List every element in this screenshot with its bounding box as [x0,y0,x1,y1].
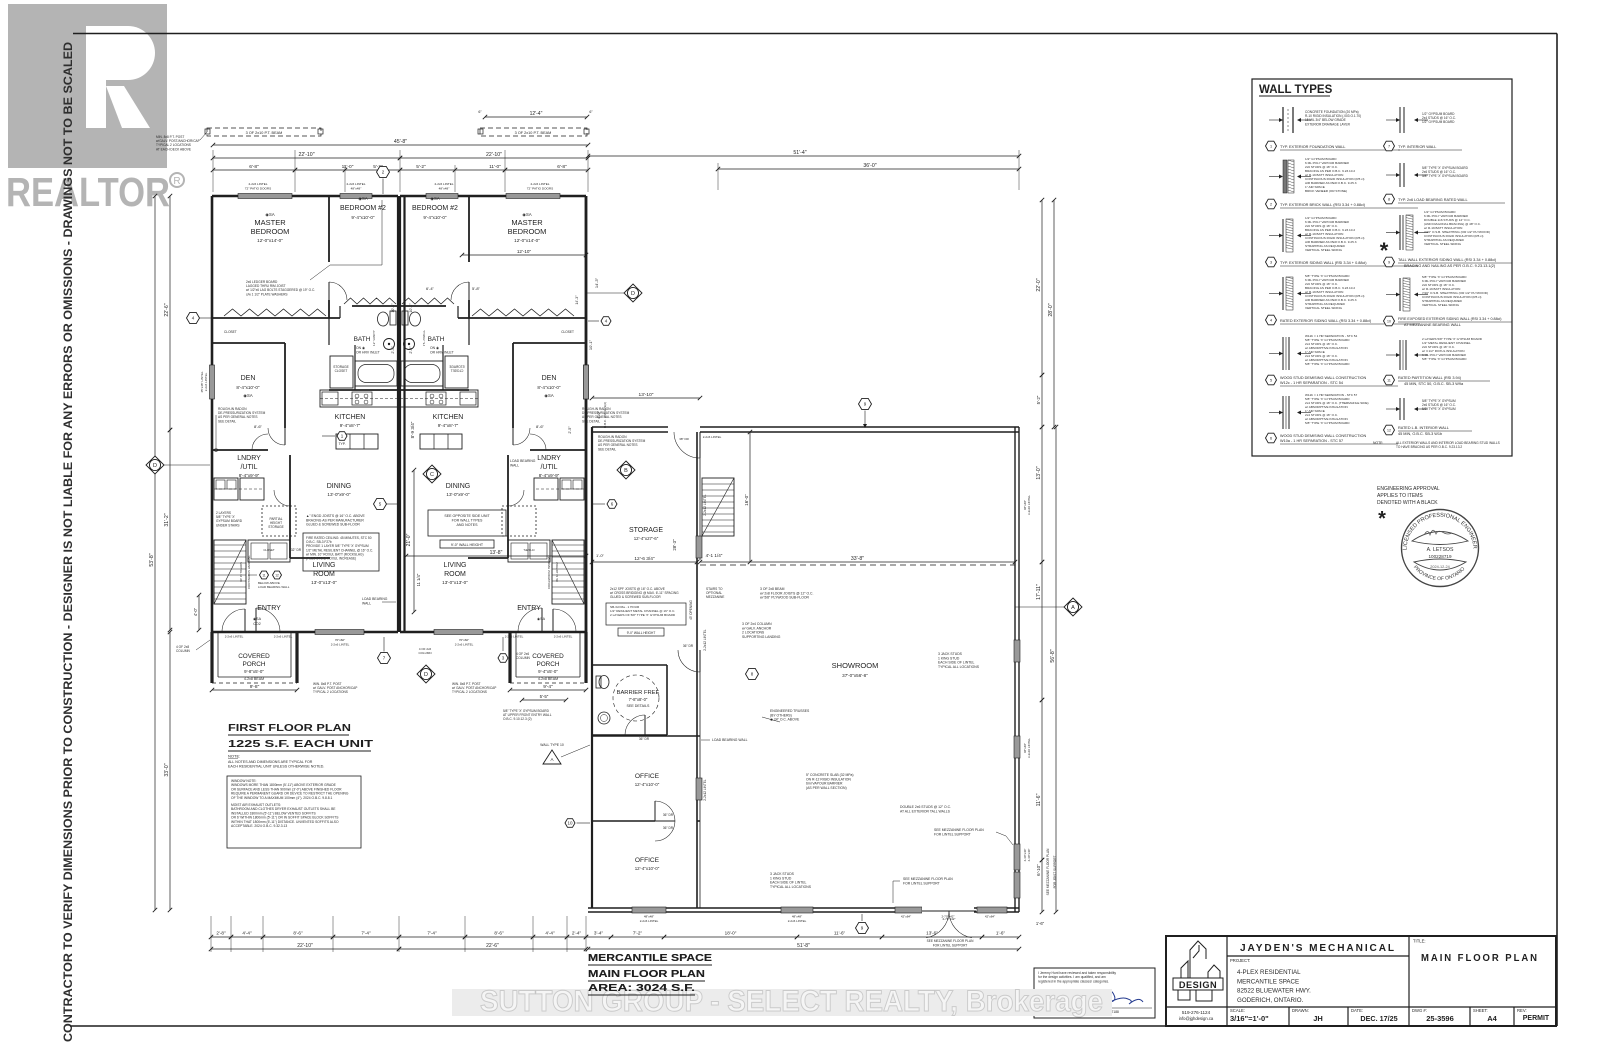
svg-text:DEN: DEN [241,375,256,382]
front window living [315,630,364,635]
svg-text:KITCHEN: KITCHEN [433,414,464,421]
wall bath top [352,305,398,307]
door master bedroom [328,282,330,300]
window bedroom2 top [340,194,372,199]
svg-text:2-2x6 LINTEL: 2-2x6 LINTEL [204,372,208,391]
svg-text:STORAGE: STORAGE [629,527,663,534]
svg-text:NOTE:: NOTE: [1373,441,1383,445]
svg-text:4'-1 1/4": 4'-1 1/4" [706,553,723,558]
dashed PT beam box left [207,128,321,136]
svg-text:48"x48": 48"x48" [439,187,450,191]
svg-text:4-PLEX RESIDENTIAL: 4-PLEX RESIDENTIAL [1237,969,1301,976]
wall den right [284,343,286,428]
svg-text:OF THE WINDOW TO A MAXIMUM 100: OF THE WINDOW TO A MAXIMUM 100mm (4"). 2… [231,796,333,800]
svg-text:13'-0": 13'-0" [1036,466,1042,479]
svg-text:100228719: 100228719 [1429,554,1452,559]
svg-text:AT ALL EXTERIOR TALL WALLS: AT ALL EXTERIOR TALL WALLS [900,809,951,813]
svg-text:TYP. EXTERIOR FOUNDATION WALL: TYP. EXTERIOR FOUNDATION WALL [1280,145,1346,149]
svg-text:D: D [631,291,635,297]
svg-text:9'-4"x8'-7": 9'-4"x8'-7" [438,423,459,428]
svg-text:3-2x10 LINTEL: 3-2x10 LINTEL [1027,738,1031,759]
svg-text:2-2x6 LINTEL: 2-2x6 LINTEL [505,635,524,639]
svg-text:ROOM: ROOM [313,571,335,578]
dim 28'-0 right upper [1053,200,1055,427]
svg-text:6: 6 [1270,437,1272,441]
svg-text:42"x84": 42"x84" [985,915,995,919]
mercantile outer wall top [592,426,1019,428]
svg-text:6'-10": 6'-10" [1036,864,1041,876]
svg-text:7'-4": 7'-4" [427,931,437,936]
svg-text:SHOWROOM: SHOWROOM [832,661,879,670]
legend entry 8 load bearing rated wall [1399,163,1401,187]
wall lndry right [289,455,291,558]
svg-text:◉SA: ◉SA [358,196,367,201]
dim 33'-0 left lower [169,632,171,910]
svg-text:CLOSET: CLOSET [224,330,237,334]
svg-text:2-2x6 LINTEL: 2-2x6 LINTEL [346,182,365,186]
svg-text:6'-8": 6'-8" [249,164,259,170]
svg-text:2-2x6 LINTEL: 2-2x6 LINTEL [331,643,350,647]
svg-text:FIRST FLOOR PLAN: FIRST FLOOR PLAN [228,722,351,734]
svg-text:25-3596: 25-3596 [1426,1014,1454,1023]
hex 5 center [374,498,387,509]
svg-text:WALL TYPE 10: WALL TYPE 10 [540,743,564,747]
svg-text:SCALE:: SCALE: [1230,1008,1245,1013]
svg-text:/UTIL: /UTIL [240,464,257,471]
svg-text:22'-10": 22'-10" [486,152,502,158]
svg-text:LOAD BEARING WALL: LOAD BEARING WALL [712,738,748,742]
svg-text:D: D [424,672,428,678]
svg-text:22'-6": 22'-6" [164,303,170,316]
svg-text:DEN: DEN [542,375,557,382]
svg-text:4'-4": 4'-4" [545,931,555,936]
svg-text:FOR LINTEL SUPPORT: FOR LINTEL SUPPORT [903,881,940,885]
mercantile bottom windows and doors [632,907,666,913]
svg-text:DENOTED WITH A BLACK: DENOTED WITH A BLACK [1377,500,1438,506]
svg-text:BATH: BATH [428,336,445,343]
svg-text:2-2x6 LINTEL: 2-2x6 LINTEL [554,635,573,639]
design logo [1178,941,1220,1001]
diamond C center [423,465,441,483]
svg-text:TYP. 2x6 LOAD BEARING RATED WA: TYP. 2x6 LOAD BEARING RATED WALL [1398,198,1468,202]
svg-text:2-2x12 LINTEL: 2-2x12 LINTEL [703,494,707,516]
svg-text:DWG #:: DWG #: [1412,1008,1427,1013]
wall types legend box [1252,79,1512,456]
svg-text:O.B.C. 9.10.12.3 (2): O.B.C. 9.10.12.3 (2) [503,717,532,721]
dim 22'-10 pair [213,157,400,159]
svg-text:EACH RESIDENTIAL UNIT UNLESS O: EACH RESIDENTIAL UNIT UNLESS OTHERWISE N… [228,765,324,769]
svg-text:13'-10": 13'-10" [639,392,654,398]
svg-text:9'-8": 9'-8" [250,684,260,690]
svg-text:5: 5 [1270,379,1272,383]
party wall [397,196,399,632]
svg-text:51'-8": 51'-8" [797,943,810,949]
svg-text:2024-12-24: 2024-12-24 [1430,565,1449,569]
svg-text:RATED PARTITION WALL (RSI 3.94: RATED PARTITION WALL (RSI 3.94) [1398,376,1462,380]
svg-text:SEE OPPOSITE SIDE UNIT: SEE OPPOSITE SIDE UNIT [444,514,490,518]
wall below barrier free [592,735,700,737]
diamond B mercantile [617,461,635,479]
svg-text:WOOD STUD DEMISING WALL CONSTR: WOOD STUD DEMISING WALL CONSTRUCTION [1280,434,1366,438]
svg-text:AT MEZZANINE BEARING WALL: AT MEZZANINE BEARING WALL [1404,323,1461,327]
svg-text:TYPICAL 2 LOCATIONS: TYPICAL 2 LOCATIONS [313,690,348,694]
svg-text:BEDROOM #2: BEDROOM #2 [412,205,458,212]
svg-text:2-70"x42": 2-70"x42" [942,915,955,919]
svg-text:JH: JH [1313,1014,1323,1023]
svg-text:TYP. INTERIOR WALL: TYP. INTERIOR WALL [1398,145,1436,149]
svg-text:5/8" TYPE 'X' GYPSUM: 5/8" TYPE 'X' GYPSUM [1422,407,1456,411]
legend entry 10 fire exposed exterior siding [1399,278,1401,311]
dim right showroom 17'-11 [1041,562,1043,700]
dim 17'-10 u2 [462,254,586,256]
extension line top right [1018,150,1020,190]
svg-text:13'-0"x13'-0": 13'-0"x13'-0" [442,580,468,585]
diamond A right [1064,598,1082,616]
svg-text:TYP.: TYP. [338,442,345,446]
extension lines top [212,150,214,192]
doors between offices [654,801,656,821]
svg-text:11: 11 [262,574,266,578]
office window lintels interior wall [696,536,702,558]
svg-text:DINING: DINING [446,483,471,490]
svg-text:2-2x12 LINTEL: 2-2x12 LINTEL [703,629,707,651]
dim 12'-6 3/4 storage [592,561,697,563]
dim 53'-8 far left [154,196,156,910]
title block dividers [1226,936,1228,1026]
closet bifold doors bedroom2 [344,298,396,304]
closet bifold doors master [224,309,326,316]
svg-text:LIVING: LIVING [444,562,467,569]
wall master/bedroom2 divider [328,196,330,262]
svg-text:BRICK VENEER (OR STONE): BRICK VENEER (OR STONE) [1305,189,1347,193]
svg-text:KITCHEN: KITCHEN [335,414,366,421]
svg-text:72" PATIO DOORS: 72" PATIO DOORS [527,187,553,191]
svg-text:CONTRACTOR TO VERIFY DIMENSION: CONTRACTOR TO VERIFY DIMENSIONS PRIOR TO… [61,42,75,1042]
svg-text:9'-4"x10'-0": 9'-4"x10'-0" [423,215,447,220]
hex 10 below [565,819,575,828]
svg-text:5/8" TYPE 'X' GYPSUM BOARD: 5/8" TYPE 'X' GYPSUM BOARD [1422,357,1467,361]
svg-text:21'-0": 21'-0" [406,533,412,546]
svg-text:◉ 24" O.C. ABOVE: ◉ 24" O.C. ABOVE [770,718,800,722]
svg-text:FOR WALL TYPES: FOR WALL TYPES [452,519,483,523]
dim 12'-4 beam right [485,116,587,118]
svg-text:9'-4"x10'-0": 9'-4"x10'-0" [351,215,375,220]
svg-text:WALL: WALL [362,601,371,605]
svg-text:2-2x6 LINTEL: 2-2x6 LINTEL [434,182,453,186]
bath sink [384,339,395,350]
svg-text:4: 4 [1270,319,1272,323]
svg-text:4'-0": 4'-0" [596,410,601,419]
kitchen counter [320,390,398,407]
svg-text:◉SA: ◉SA [544,393,553,398]
svg-text:4-40"x40": 4-40"x40" [1027,849,1031,862]
svg-text:CLOSET: CLOSET [561,330,574,334]
dim bottom segments mercantile [586,936,611,938]
barrier free sink [598,712,610,724]
svg-text:◉SA: ◉SA [522,212,531,217]
entry closet door [244,609,246,632]
svg-text:TYPICAL ALL LOCATIONS: TYPICAL ALL LOCATIONS [938,665,980,669]
svg-text:◉SA: ◉SA [243,393,252,398]
svg-text:RATED EXTERIOR SIDING WALL (RS: RATED EXTERIOR SIDING WALL (RSI 3.34 + 0… [1280,319,1372,323]
svg-text:MERCANTILE SPACE: MERCANTILE SPACE [1237,978,1299,985]
svg-text:AREA: 3024 S.F.: AREA: 3024 S.F. [588,983,695,994]
svg-text:/UTIL: /UTIL [540,464,557,471]
svg-text:REALTOR: REALTOR [6,169,170,215]
hex markers u2 interior [601,317,611,326]
bath toilet [378,312,389,326]
svg-text:registered in the appropriate: registered in the appropriate classes/ c… [1038,979,1109,983]
mercantile interior wall storage/showroom [696,432,698,560]
residential unit 1 walls [210,194,399,635]
svg-text:◉SA: ◉SA [430,196,439,201]
svg-text:2'-8": 2'-8" [216,931,226,936]
svg-text:LNDRY: LNDRY [237,455,261,462]
stair rail diagonal [214,540,246,604]
partial height storage [262,506,296,536]
svg-text:11 1/4": 11 1/4" [416,573,421,586]
svg-text:3: 3 [1270,261,1272,265]
dim 45'-8 residential [213,144,588,146]
svg-text:13'-6": 13'-6" [926,931,938,936]
svg-text:10: 10 [567,821,573,826]
mezzanine dashed line [700,564,1015,566]
svg-text:ENTRY: ENTRY [257,605,281,612]
svg-text:10'-1": 10'-1" [588,339,593,350]
svg-text:3/16"=1'-0": 3/16"=1'-0" [1230,1014,1269,1023]
door lndry [289,490,291,506]
mercantile front double door [922,905,974,914]
svg-text:TO HAVE BRACING AS PER O.B.C.: TO HAVE BRACING AS PER O.B.C. 9.23.13.2 [1396,445,1462,449]
svg-text:MASTER: MASTER [511,218,543,227]
residential right wall lower [585,196,588,632]
mercantile right wall [1014,427,1016,912]
svg-text:12'-4": 12'-4" [530,111,543,117]
dim 5'-5 entry [522,699,566,701]
svg-text:22'-6": 22'-6" [486,943,499,949]
window right wall den u2 [584,365,589,399]
svg-text:TYPICAL 2 LOCATIONS: TYPICAL 2 LOCATIONS [452,690,487,694]
svg-text:GLUED & SCREWED SUB-FLOOR: GLUED & SCREWED SUB-FLOOR [306,523,360,527]
door office1 top [699,650,701,672]
svg-text:A4: A4 [1487,1014,1497,1023]
covered porch walls [210,632,213,683]
svg-text:TYP. EXTERIOR BRICK WALL (RSI: TYP. EXTERIOR BRICK WALL (RSI 3.34 + 0.8… [1280,203,1366,207]
svg-text:R: R [173,176,180,187]
svg-text:SEE DETAIL: SEE DETAIL [218,419,236,423]
svg-text:10'-1": 10'-1" [391,303,395,313]
svg-text:2-2x12 LINTEL: 2-2x12 LINTEL [703,779,707,801]
svg-text:FOR LINTEL SUPPORT: FOR LINTEL SUPPORT [934,832,971,836]
svg-text:STORAGE: STORAGE [268,525,284,529]
svg-text:28'-0": 28'-0" [1048,303,1054,316]
svg-text:8'-6": 8'-6" [536,424,545,429]
covered porch walls [508,632,511,683]
svg-text:22'-10": 22'-10" [298,152,314,158]
svg-text:5'-2": 5'-2" [416,164,426,170]
svg-text:36" DR: 36" DR [663,813,674,817]
wall unit1 top exterior [212,195,398,198]
svg-text:NOTE:: NOTE: [228,754,240,759]
svg-text:O.B.C. 9.10.12.3(2): O.B.C. 9.10.12.3(2) [603,402,607,428]
svg-text:DESIGN: DESIGN [1179,980,1217,990]
svg-text:SEE DETAILS: SEE DETAILS [627,704,651,708]
svg-text:12'-6 3/4": 12'-6 3/4" [634,556,655,562]
svg-text:BEDROOM: BEDROOM [508,227,547,236]
lndry sink cab [240,478,264,500]
svg-text:8'-4"x9'-9": 8'-4"x9'-9" [239,473,260,478]
svg-text:WALL: WALL [510,463,519,467]
legend entry 1 exterior foundation wall [1282,107,1284,133]
svg-text:48"x48": 48"x48" [792,915,802,919]
svg-text:8: 8 [1388,198,1390,202]
svg-text:OFFICE: OFFICE [635,773,660,780]
svg-text:9'-0" WALL HEIGHT: 9'-0" WALL HEIGHT [627,631,656,635]
svg-text:◉SA: ◉SA [253,617,262,621]
barrier free room walls [592,664,667,666]
svg-text:DINING: DINING [327,483,352,490]
svg-text:3 OF 2x10 P.T. BEAM: 3 OF 2x10 P.T. BEAM [515,131,552,135]
kitchen fridge [322,392,338,405]
svg-text:3'-4": 3'-4" [594,931,604,936]
hex marker left wall [187,312,200,323]
svg-text:LIVING: LIVING [313,562,336,569]
svg-text:A: A [550,757,553,762]
dim 4'-0 left small [198,595,200,630]
svg-text:2-2x6 LINTEL: 2-2x6 LINTEL [703,435,722,439]
svg-text:4-2x8 BEAM: 4-2x8 BEAM [538,677,558,681]
svg-text:UP 15 TREADS: UP 15 TREADS [239,562,243,582]
svg-text:9'-0" WALL HEIGHT: 9'-0" WALL HEIGHT [451,543,484,547]
window note box [227,776,361,848]
svg-text:2-2x6 LINTEL: 2-2x6 LINTEL [455,643,474,647]
legend entry 12 rated LB interior wall [1399,398,1401,420]
svg-text:4'-4": 4'-4" [242,931,252,936]
svg-text:TYPICAL ALL LOCATIONS: TYPICAL ALL LOCATIONS [770,885,812,889]
svg-text:13'-0"x9'-0": 13'-0"x9'-0" [327,492,351,497]
svg-text:45 MIN, STC 50, O.B.C. SB-3 W9: 45 MIN, STC 50, O.B.C. SB-3 W9a [1404,382,1464,386]
svg-text:2'-5": 2'-5" [568,426,572,434]
wall between offices [592,820,655,822]
svg-text:14'-3": 14'-3" [575,295,579,305]
svg-text:22'-0": 22'-0" [1036,278,1042,291]
dim 36'-0 top [718,168,1019,170]
svg-text:DEC. 17/25: DEC. 17/25 [1360,1014,1397,1023]
dim 5'-2 right upper [1041,375,1043,427]
svg-text:COLUMN: COLUMN [516,656,531,660]
mercantile bottom wall [588,907,1019,909]
svg-text:12'-4"x10'-0": 12'-4"x10'-0" [635,782,660,787]
page border bottom [70,1025,1557,1027]
svg-text:1'-0": 1'-0" [596,553,605,558]
hex marker 9 bottom [856,922,869,933]
svg-text:11'-6": 11'-6" [1036,793,1042,806]
legend entry 3 exterior siding wall [1282,219,1284,252]
legend entry 6 wood stud demising wall 2 [1282,396,1284,429]
svg-text:13'-0"x9'-0": 13'-0"x9'-0" [446,492,470,497]
svg-text:7'-4": 7'-4" [361,931,371,936]
svg-text:6'-8": 6'-8" [557,164,567,170]
legend entry 9 tall wall exterior siding [1399,215,1401,250]
wall bath/kitchen [329,389,398,391]
dims between res and merc [592,397,700,399]
svg-text:COLUMN: COLUMN [176,649,191,653]
svg-text:5/8" TYPE 'X' GYPSUM BOARD: 5/8" TYPE 'X' GYPSUM BOARD [1305,421,1350,425]
svg-text:13'-0"x13'-0": 13'-0"x13'-0" [311,580,337,585]
svg-text:12: 12 [275,574,279,578]
dim right showroom 13'-0 [1041,427,1043,562]
window patio door top [238,194,292,199]
svg-text:53'-8": 53'-8" [149,553,155,566]
svg-text:◉SA: ◉SA [537,617,546,621]
svg-text:BRACING AND NAILING AS PER O.B: BRACING AND NAILING AS PER O.B.C. 9.23.1… [1404,264,1496,268]
svg-text:5/8" TYPE 'X' GYPSUM BOARD: 5/8" TYPE 'X' GYPSUM BOARD [1422,174,1469,178]
svg-text:45 MIN, O.B.C. SB-3 W1b: 45 MIN, O.B.C. SB-3 W1b [1398,432,1442,436]
svg-text:W10a - 1 HR SEPARATION - STC 5: W10a - 1 HR SEPARATION - STC 57 [1280,439,1343,443]
svg-text:1: 1 [1270,145,1272,149]
svg-text:2: 2 [1270,203,1272,207]
svg-text:22'-10": 22'-10" [297,943,313,949]
svg-text:VERTICAL STEEL SIDING: VERTICAL STEEL SIDING [1305,306,1343,310]
declaration signature [1095,991,1143,1004]
mercantile right wall lintels [1014,640,1020,662]
svg-text:JAYDEN'S MECHANICAL: JAYDEN'S MECHANICAL [1240,942,1396,954]
svg-text:11'-0": 11'-0" [342,164,354,170]
svg-text:4-2x8 BEAM: 4-2x8 BEAM [244,677,264,681]
svg-text:17'-11": 17'-11" [1036,584,1042,600]
svg-text:5/8" TYPE 'X' GYPSUM BOARD: 5/8" TYPE 'X' GYPSUM BOARD [1305,362,1350,366]
svg-text:2'-4": 2'-4" [572,931,582,936]
svg-text:ROOM: ROOM [444,571,466,578]
svg-text:◉SA: ◉SA [265,212,274,217]
svg-text:MERCANTILE SPACE: MERCANTILE SPACE [588,952,712,964]
svg-text:BEDROOM: BEDROOM [251,227,290,236]
svg-text:FIRE EXPOSED EXTERIOR SIDING W: FIRE EXPOSED EXTERIOR SIDING WALL (RSI 3… [1398,317,1502,321]
svg-text:33'-0": 33'-0" [164,763,170,776]
extension lines bottom residential [210,916,212,952]
svg-text:info@jghdesign.ca: info@jghdesign.ca [1179,1016,1214,1021]
bath storage closet [330,356,353,388]
svg-text:12'-4"x27'-6": 12'-4"x27'-6" [634,536,659,541]
svg-text:8'-4"x10'-0": 8'-4"x10'-0" [537,385,561,390]
svg-text:7: 7 [1388,145,1390,149]
svg-text:36'-0": 36'-0" [863,163,876,169]
wall closet strip bottom [212,342,285,344]
svg-text:PERMIT: PERMIT [1523,1015,1550,1022]
svg-text:MAIN FLOOR PLAN: MAIN FLOOR PLAN [588,968,705,980]
title block outer [1166,936,1556,1026]
svg-text:2-2x6 LINTEL: 2-2x6 LINTEL [788,919,807,923]
svg-text:FOR LINTEL SUPPORT: FOR LINTEL SUPPORT [933,944,968,948]
hex markers stairs u1 [260,571,269,579]
diamond D right [624,284,642,302]
svg-text:TITLE:: TITLE: [1413,939,1426,944]
svg-text:1/2" GYPSUM BOARD: 1/2" GYPSUM BOARD [1422,120,1455,124]
svg-text:45'-8": 45'-8" [394,139,407,145]
svg-text:2'-5": 2'-5" [409,346,413,354]
legend entry 4 rated exterior siding wall [1282,277,1284,310]
svg-text:8'-6": 8'-6" [254,424,263,429]
svg-text:OR HRV INLET: OR HRV INLET [356,350,380,354]
svg-text:TYP. EXTERIOR SIDING WALL (RSI: TYP. EXTERIOR SIDING WALL (RSI 3.34 + 0.… [1280,261,1367,265]
svg-text:48"x48": 48"x48" [644,915,654,919]
legend entry 5 wood stud demising wall [1282,337,1284,370]
svg-text:12'-4"x10'-0": 12'-4"x10'-0" [635,866,660,871]
svg-text:COVERED: COVERED [238,653,270,660]
svg-text:APPLIES TO ITEMS: APPLIES TO ITEMS [1377,493,1423,499]
svg-text:PROJECT:: PROJECT: [1230,958,1250,963]
svg-text:1225 S.F. EACH UNIT: 1225 S.F. EACH UNIT [228,738,374,750]
